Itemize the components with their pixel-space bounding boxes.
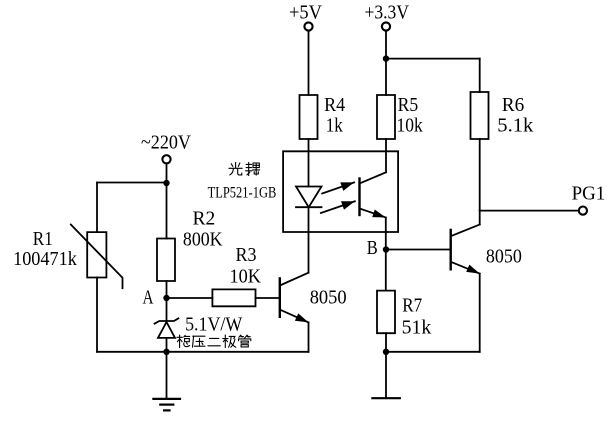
svg-text:10k: 10k [397,114,423,136]
svg-text:A: A [143,287,154,309]
svg-text:8050: 8050 [310,287,347,309]
svg-text:B: B [367,237,378,259]
svg-text:+5V: +5V [289,3,322,24]
svg-text:5.1V/W: 5.1V/W [185,314,242,336]
svg-text:~220V: ~220V [141,132,192,154]
svg-text:R4: R4 [324,94,345,116]
svg-text:R7: R7 [402,295,422,317]
svg-text:+3.3V: +3.3V [365,3,410,24]
svg-text:1k: 1k [326,114,343,136]
svg-text:TLP521-1GB: TLP521-1GB [208,185,277,202]
svg-text:R6: R6 [502,94,525,116]
svg-text:8050: 8050 [486,246,522,268]
svg-text:R2: R2 [193,207,216,229]
svg-text:10K: 10K [230,265,262,287]
svg-text:R3: R3 [236,244,257,266]
svg-text:R5: R5 [398,94,419,116]
svg-text:800K: 800K [183,229,223,251]
svg-text:100471k: 100471k [13,248,77,270]
svg-text:51k: 51k [402,316,432,338]
svg-text:5.1k: 5.1k [497,114,533,136]
svg-text:PG1: PG1 [572,183,606,205]
svg-text:R1: R1 [33,228,53,250]
